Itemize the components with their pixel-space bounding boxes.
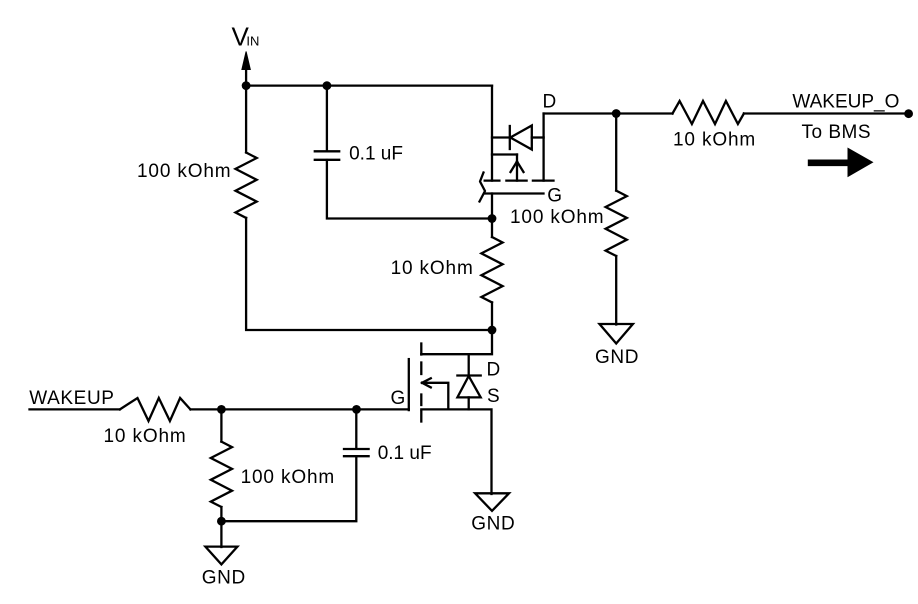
wire node F to R6 (220, 409, 222, 441)
wire node G to C2 (355, 409, 357, 448)
ground symbol left (202, 547, 246, 589)
transistor Q1 gate squiggle (480, 173, 486, 202)
wire node E to Q2 drain (421, 330, 492, 354)
transistor Q1 channel dashed line (485, 179, 554, 181)
wire R3 to GND (615, 256, 617, 325)
node junction dot D (612, 109, 621, 118)
resistor R5 10 kOhm input (120, 398, 190, 421)
resistor R1 100 kOhm (236, 153, 257, 218)
svg-text:100 kOhm: 100 kOhm (137, 161, 231, 182)
wire node D to R3 (615, 114, 617, 191)
node VIN label (232, 22, 260, 52)
wire R2 to node E (491, 302, 493, 330)
transistor Q2 body diode (457, 354, 480, 409)
svg-text:100 kOhm: 100 kOhm (241, 467, 335, 488)
capacitor C2 0.1 uF (344, 449, 369, 456)
transistor Q1 gate line (484, 192, 543, 194)
svg-text:G: G (391, 388, 406, 409)
svg-text:IN: IN (246, 34, 259, 49)
svg-text:GND: GND (202, 568, 246, 589)
wire node H to GND (220, 521, 222, 547)
wire WAKEUP input (30, 408, 120, 410)
svg-text:WAKEUP: WAKEUP (29, 388, 114, 409)
svg-text:10 kOhm: 10 kOhm (391, 258, 474, 279)
wire Q2 source to GND (421, 409, 491, 494)
wire node C to R2 (491, 219, 493, 238)
node junction dot F (217, 405, 226, 414)
wire B to C1 (326, 86, 328, 151)
resistor R2 10 kOhm (481, 237, 502, 302)
transistor Q1 body diode (492, 126, 544, 150)
VIN arrow terminal (242, 52, 250, 86)
svg-text:0.1 uF: 0.1 uF (378, 443, 432, 464)
transistor Q1 body connection arrow (492, 155, 524, 181)
wire R1 to bottom rail (246, 218, 492, 330)
node junction dot C (488, 214, 497, 223)
transistor Q1 source wire (491, 86, 493, 181)
transistor Q2 body connection arrow (422, 378, 448, 409)
node junction dot E (488, 326, 497, 335)
node junction dot G (352, 405, 361, 414)
svg-text:10 kOhm: 10 kOhm (673, 129, 756, 150)
svg-text:D: D (487, 359, 501, 380)
svg-text:WAKEUP_O: WAKEUP_O (792, 91, 899, 112)
transistor Q1 drain wire (542, 114, 544, 181)
svg-text:To BMS: To BMS (802, 122, 872, 143)
wire C2 to node H (221, 456, 356, 521)
svg-text:10 kOhm: 10 kOhm (104, 426, 187, 447)
To BMS direction arrow (808, 148, 874, 178)
wire drain rail to output (544, 112, 673, 114)
svg-text:100 kOhm: 100 kOhm (510, 207, 604, 228)
resistor R6 100 kOhm (211, 442, 232, 507)
svg-text:S: S (487, 386, 500, 407)
capacitor C1 0.1 uF (315, 151, 339, 160)
node junction dot B (323, 81, 332, 90)
transistor Q2 gate bar (408, 359, 410, 410)
node junction dot H (217, 517, 226, 526)
wire R6 to node H (220, 507, 222, 521)
resistor R3 100 kOhm (606, 191, 627, 256)
wire Q1 gate stub to node C (491, 194, 493, 219)
svg-text:0.1 uF: 0.1 uF (349, 144, 403, 165)
svg-text:GND: GND (471, 514, 515, 535)
svg-text:G: G (547, 185, 562, 206)
wire VIN rail (246, 84, 492, 86)
wire C1 to node C (327, 160, 492, 219)
transistor Q2 channel dashed line (420, 344, 422, 422)
node junction dot A (242, 81, 251, 90)
ground symbol middle (471, 493, 515, 534)
resistor R4 10 kOhm output (673, 101, 744, 124)
svg-text:D: D (543, 92, 557, 113)
wire R5 to Q2 gate (190, 408, 408, 410)
svg-text:GND: GND (595, 347, 639, 368)
node WAKEUP_O terminal dot (904, 109, 913, 118)
wire R4 to WAKEUP_O terminal (744, 112, 909, 114)
ground symbol right (595, 324, 639, 368)
wire VIN to R1 (245, 86, 247, 153)
